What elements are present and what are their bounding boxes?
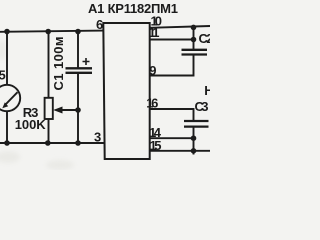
wire lamp bottom	[6, 111, 8, 143]
label A1 КР1182ПМ1	[88, 1, 178, 16]
node junction top-left	[4, 29, 10, 35]
wire pin 16 to C3	[150, 109, 194, 121]
wire C1 bottom	[77, 73, 79, 143]
node junction pin10-C2	[191, 25, 197, 31]
resistor R3 potentiometer	[45, 98, 78, 119]
wire top net pin6	[0, 31, 104, 32]
label pin 6	[96, 17, 103, 32]
label pin 15	[150, 138, 162, 153]
svg-text:100K: 100K	[15, 117, 47, 132]
svg-text:16: 16	[146, 95, 158, 110]
svg-text:9: 9	[149, 63, 156, 78]
node junction top C1	[75, 29, 81, 35]
svg-text:А1 КР1182ПМ1: А1 КР1182ПМ1	[88, 1, 178, 16]
wire lamp top	[6, 32, 8, 86]
label Н	[204, 83, 213, 98]
svg-text:C2: C2	[199, 31, 211, 46]
capacitor C2	[182, 50, 208, 55]
wire R3 bottom	[48, 119, 50, 143]
label C2	[199, 31, 214, 46]
label C1 100м	[51, 37, 66, 91]
svg-text:11: 11	[149, 25, 160, 40]
node junction wiper	[75, 107, 81, 113]
svg-text:6: 6	[96, 17, 103, 32]
wire pin 14	[150, 137, 194, 139]
label 5	[0, 68, 6, 83]
label pin 16	[146, 95, 158, 110]
svg-text:Н: Н	[204, 83, 210, 98]
node junction pin11-C2	[191, 37, 197, 43]
label 100K	[15, 117, 47, 132]
label R3	[23, 105, 39, 120]
wire C2 top	[193, 28, 195, 50]
IC U1 box	[103, 23, 149, 159]
wire pin 15	[150, 150, 210, 152]
svg-text:15: 15	[150, 138, 162, 153]
wire C1 top	[77, 32, 79, 69]
node junction bottom lamp	[4, 140, 10, 146]
wire pin 11	[150, 39, 194, 41]
wire pin 10	[150, 26, 211, 28]
label pin 3	[94, 130, 101, 145]
svg-text:C1 100м: C1 100м	[51, 37, 66, 91]
svg-text:C3: C3	[195, 99, 209, 114]
node junction bottom R3	[45, 140, 51, 146]
node junction pin14-C3	[191, 135, 197, 141]
wire C2 bottom to pin 9	[150, 55, 194, 76]
svg-text:3: 3	[94, 130, 101, 145]
capacitor C1	[66, 58, 93, 73]
node junction pin15-C3	[191, 148, 197, 154]
label pin 9	[149, 63, 156, 78]
node junction top R3	[45, 29, 51, 35]
capacitor C3	[184, 121, 209, 127]
lamp EL5	[0, 85, 20, 111]
label pin 14	[149, 125, 162, 140]
wire R3 top	[48, 32, 50, 99]
wire bottom net pin3	[0, 142, 105, 144]
label pin 10	[151, 13, 163, 28]
label C3	[195, 99, 209, 114]
label pin 11	[149, 25, 160, 40]
wire C3 bottom	[193, 127, 195, 155]
svg-text:5: 5	[0, 68, 6, 83]
node junction bottom C1	[75, 140, 81, 146]
